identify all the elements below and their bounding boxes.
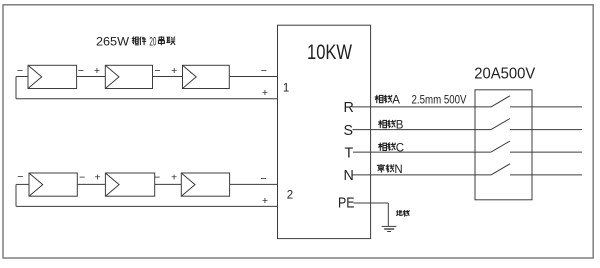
svg-text:265W: 265W bbox=[96, 34, 130, 48]
svg-text:+: + bbox=[262, 87, 268, 99]
svg-text:−: − bbox=[261, 65, 267, 77]
label 地线 (ground wire) bbox=[396, 210, 409, 216]
inverter U1 10KW box bbox=[278, 25, 371, 238]
svg-text:20: 20 bbox=[149, 34, 156, 48]
net label 相线A bbox=[375, 95, 401, 107]
breaker pole S blade bbox=[491, 119, 510, 130]
PV module PV2 bbox=[105, 65, 152, 88]
wire: phase R inverter to breaker bbox=[352, 106, 491, 108]
svg-text:N: N bbox=[344, 168, 354, 184]
wire: string2 positive return to inverter bbox=[16, 205, 278, 207]
label: 组件 (module) bbox=[132, 37, 139, 45]
wire: neutral N inverter to breaker bbox=[353, 174, 492, 176]
svg-text:+: + bbox=[171, 172, 177, 184]
wire: phase T breaker output bbox=[510, 151, 582, 153]
svg-text:20A500V: 20A500V bbox=[474, 66, 535, 83]
svg-text:PE: PE bbox=[338, 196, 355, 212]
wire: PE drop to ground bbox=[387, 203, 389, 226]
svg-text:−: − bbox=[154, 172, 160, 184]
svg-text:−: − bbox=[17, 171, 23, 183]
ground symbol bbox=[382, 226, 397, 231]
wire: string2 PV4 negative lead bbox=[16, 183, 29, 185]
svg-text:C: C bbox=[396, 142, 404, 154]
wire: string1 PV2-PV3 bbox=[153, 76, 183, 78]
svg-text:+: + bbox=[94, 65, 100, 77]
svg-text:B: B bbox=[396, 120, 404, 132]
net label 相线C bbox=[378, 142, 404, 154]
breaker pole T blade bbox=[491, 141, 510, 152]
svg-text:R: R bbox=[344, 100, 354, 116]
PV module PV5 bbox=[105, 173, 154, 196]
svg-text:A: A bbox=[392, 95, 400, 107]
wire: phase T inverter to breaker bbox=[353, 151, 491, 153]
svg-text:10KW: 10KW bbox=[307, 41, 352, 64]
PV module PV1 bbox=[28, 65, 77, 88]
svg-text:2: 2 bbox=[287, 189, 293, 201]
wire: phase R breaker output bbox=[510, 106, 582, 108]
wire: string1 left drop bbox=[15, 77, 17, 99]
wire: string2 PV4-PV5 bbox=[77, 183, 105, 185]
svg-text:+: + bbox=[262, 195, 268, 207]
PV module PV3 bbox=[183, 65, 230, 88]
wire: string1 PV1-PV2 bbox=[77, 76, 106, 78]
svg-text:−: − bbox=[79, 172, 85, 184]
PV module PV4 bbox=[29, 173, 77, 196]
wire: PE lead bbox=[354, 202, 389, 204]
svg-text:1: 1 bbox=[283, 83, 289, 95]
breaker pole R blade bbox=[491, 96, 510, 107]
wire: string1 PV3 to inverter input 1 bbox=[229, 76, 277, 78]
svg-text:S: S bbox=[344, 123, 354, 139]
label: 串联 (in series) bbox=[158, 36, 164, 45]
svg-text:−: − bbox=[260, 173, 266, 185]
svg-text:+: + bbox=[95, 172, 101, 184]
net label 相线B bbox=[378, 120, 404, 132]
breaker pole N blade bbox=[491, 164, 510, 175]
breaker QF1 box bbox=[475, 90, 532, 200]
svg-text:2.5mm 500V: 2.5mm 500V bbox=[412, 95, 467, 107]
wire: string2 PV5-PV6 bbox=[155, 183, 182, 185]
wire: string1 PV1 negative lead bbox=[16, 76, 28, 78]
wire: phase S inverter to breaker bbox=[353, 129, 492, 131]
svg-text:−: − bbox=[17, 65, 23, 77]
wire: neutral N breaker output bbox=[510, 174, 582, 176]
wire: string2 left drop bbox=[15, 184, 17, 206]
wire: phase S breaker output bbox=[510, 129, 582, 131]
svg-text:+: + bbox=[171, 65, 177, 77]
net label 零线N bbox=[377, 164, 403, 176]
wire: string2 PV6 to inverter input 2 bbox=[230, 183, 278, 185]
svg-text:N: N bbox=[394, 164, 402, 176]
wire: string1 positive return to inverter bbox=[16, 98, 278, 100]
svg-text:−: − bbox=[154, 65, 160, 77]
svg-text:−: − bbox=[78, 65, 84, 77]
PV module PV6 bbox=[181, 173, 229, 196]
svg-text:T: T bbox=[345, 145, 354, 161]
